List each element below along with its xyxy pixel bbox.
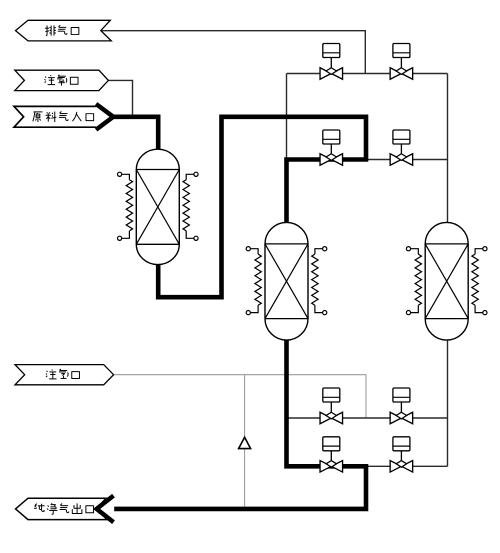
wire: hydrogen-inject header (gray) [114, 375, 366, 418]
actuator (valve at 401.4,73.5) [393, 44, 410, 68]
check valve on nitrogen branch [239, 437, 251, 448]
control valve at (401.4,73.5) [390, 68, 413, 80]
pipe: T2 bottom to product outlet (bold) [114, 338, 366, 509]
heater coil T3 right [472, 247, 487, 315]
heater coil T1 right [183, 172, 198, 240]
wire: right downcomer from vessel T3 [447, 340, 449, 466]
wire: vent line from exhaust banner [101, 31, 366, 74]
wire: top valve row 2 (thin part) [366, 159, 448, 161]
wire: top valve row 1 [287, 73, 448, 75]
actuator (valve at 331.3,159.5) [323, 130, 340, 154]
adsorber vessel T2 [265, 222, 308, 340]
actuator (valve at 401.4,466.3) [393, 437, 410, 461]
control valve at (401.4,466.3) [390, 461, 413, 473]
adsorber vessel T1 [136, 149, 179, 264]
control valve at (331.3,159.5) [320, 154, 343, 166]
banner: hydrogen inject 注氢口 [15, 365, 114, 385]
heater coil T2 right [312, 247, 327, 315]
banner: oxygen inject 注氧口 [15, 70, 109, 90]
control valve at (331.3,73.5) [320, 68, 343, 80]
control valve at (401.4,159.5) [390, 154, 413, 166]
control valve at (331.3,418.0) [320, 412, 343, 424]
actuator (valve at 331.3,73.5) [323, 44, 340, 68]
pipe: T1 bottom loop up and across to T2 (bold) [158, 117, 366, 297]
control valve at (331.3,466.3) [320, 461, 343, 473]
wire: bottom valve row 1 [287, 417, 448, 419]
actuator (valve at 401.4,418.0) [393, 388, 410, 412]
actuator (valve at 331.3,418.0) [323, 388, 340, 412]
pipe: raw gas inlet to vessel T1 (bold) [111, 117, 158, 152]
heater coil T1 left [118, 172, 133, 240]
wire: oxygen-inject drop [108, 80, 132, 116]
wire: right riser to vessel T3 top [447, 74, 449, 223]
heater coil T3 left [406, 247, 421, 315]
banner: raw gas inlet 原料气入口 [14, 104, 113, 130]
banner: product gas outlet 纯净气出口 [16, 496, 114, 523]
banner: exhaust port 排气口 [16, 20, 112, 41]
adsorber vessel T3 [425, 222, 468, 340]
actuator (valve at 401.4,159.5) [393, 130, 410, 154]
control valve at (401.4,418.0) [390, 412, 413, 424]
wire: bottom valve row 2 (thin part) [366, 465, 448, 467]
wire: check-valve branch (gray) [244, 375, 246, 509]
actuator (valve at 331.3,466.3) [323, 437, 340, 461]
wire: left riser between top rows [286, 74, 288, 160]
heater coil T2 left [246, 247, 261, 315]
